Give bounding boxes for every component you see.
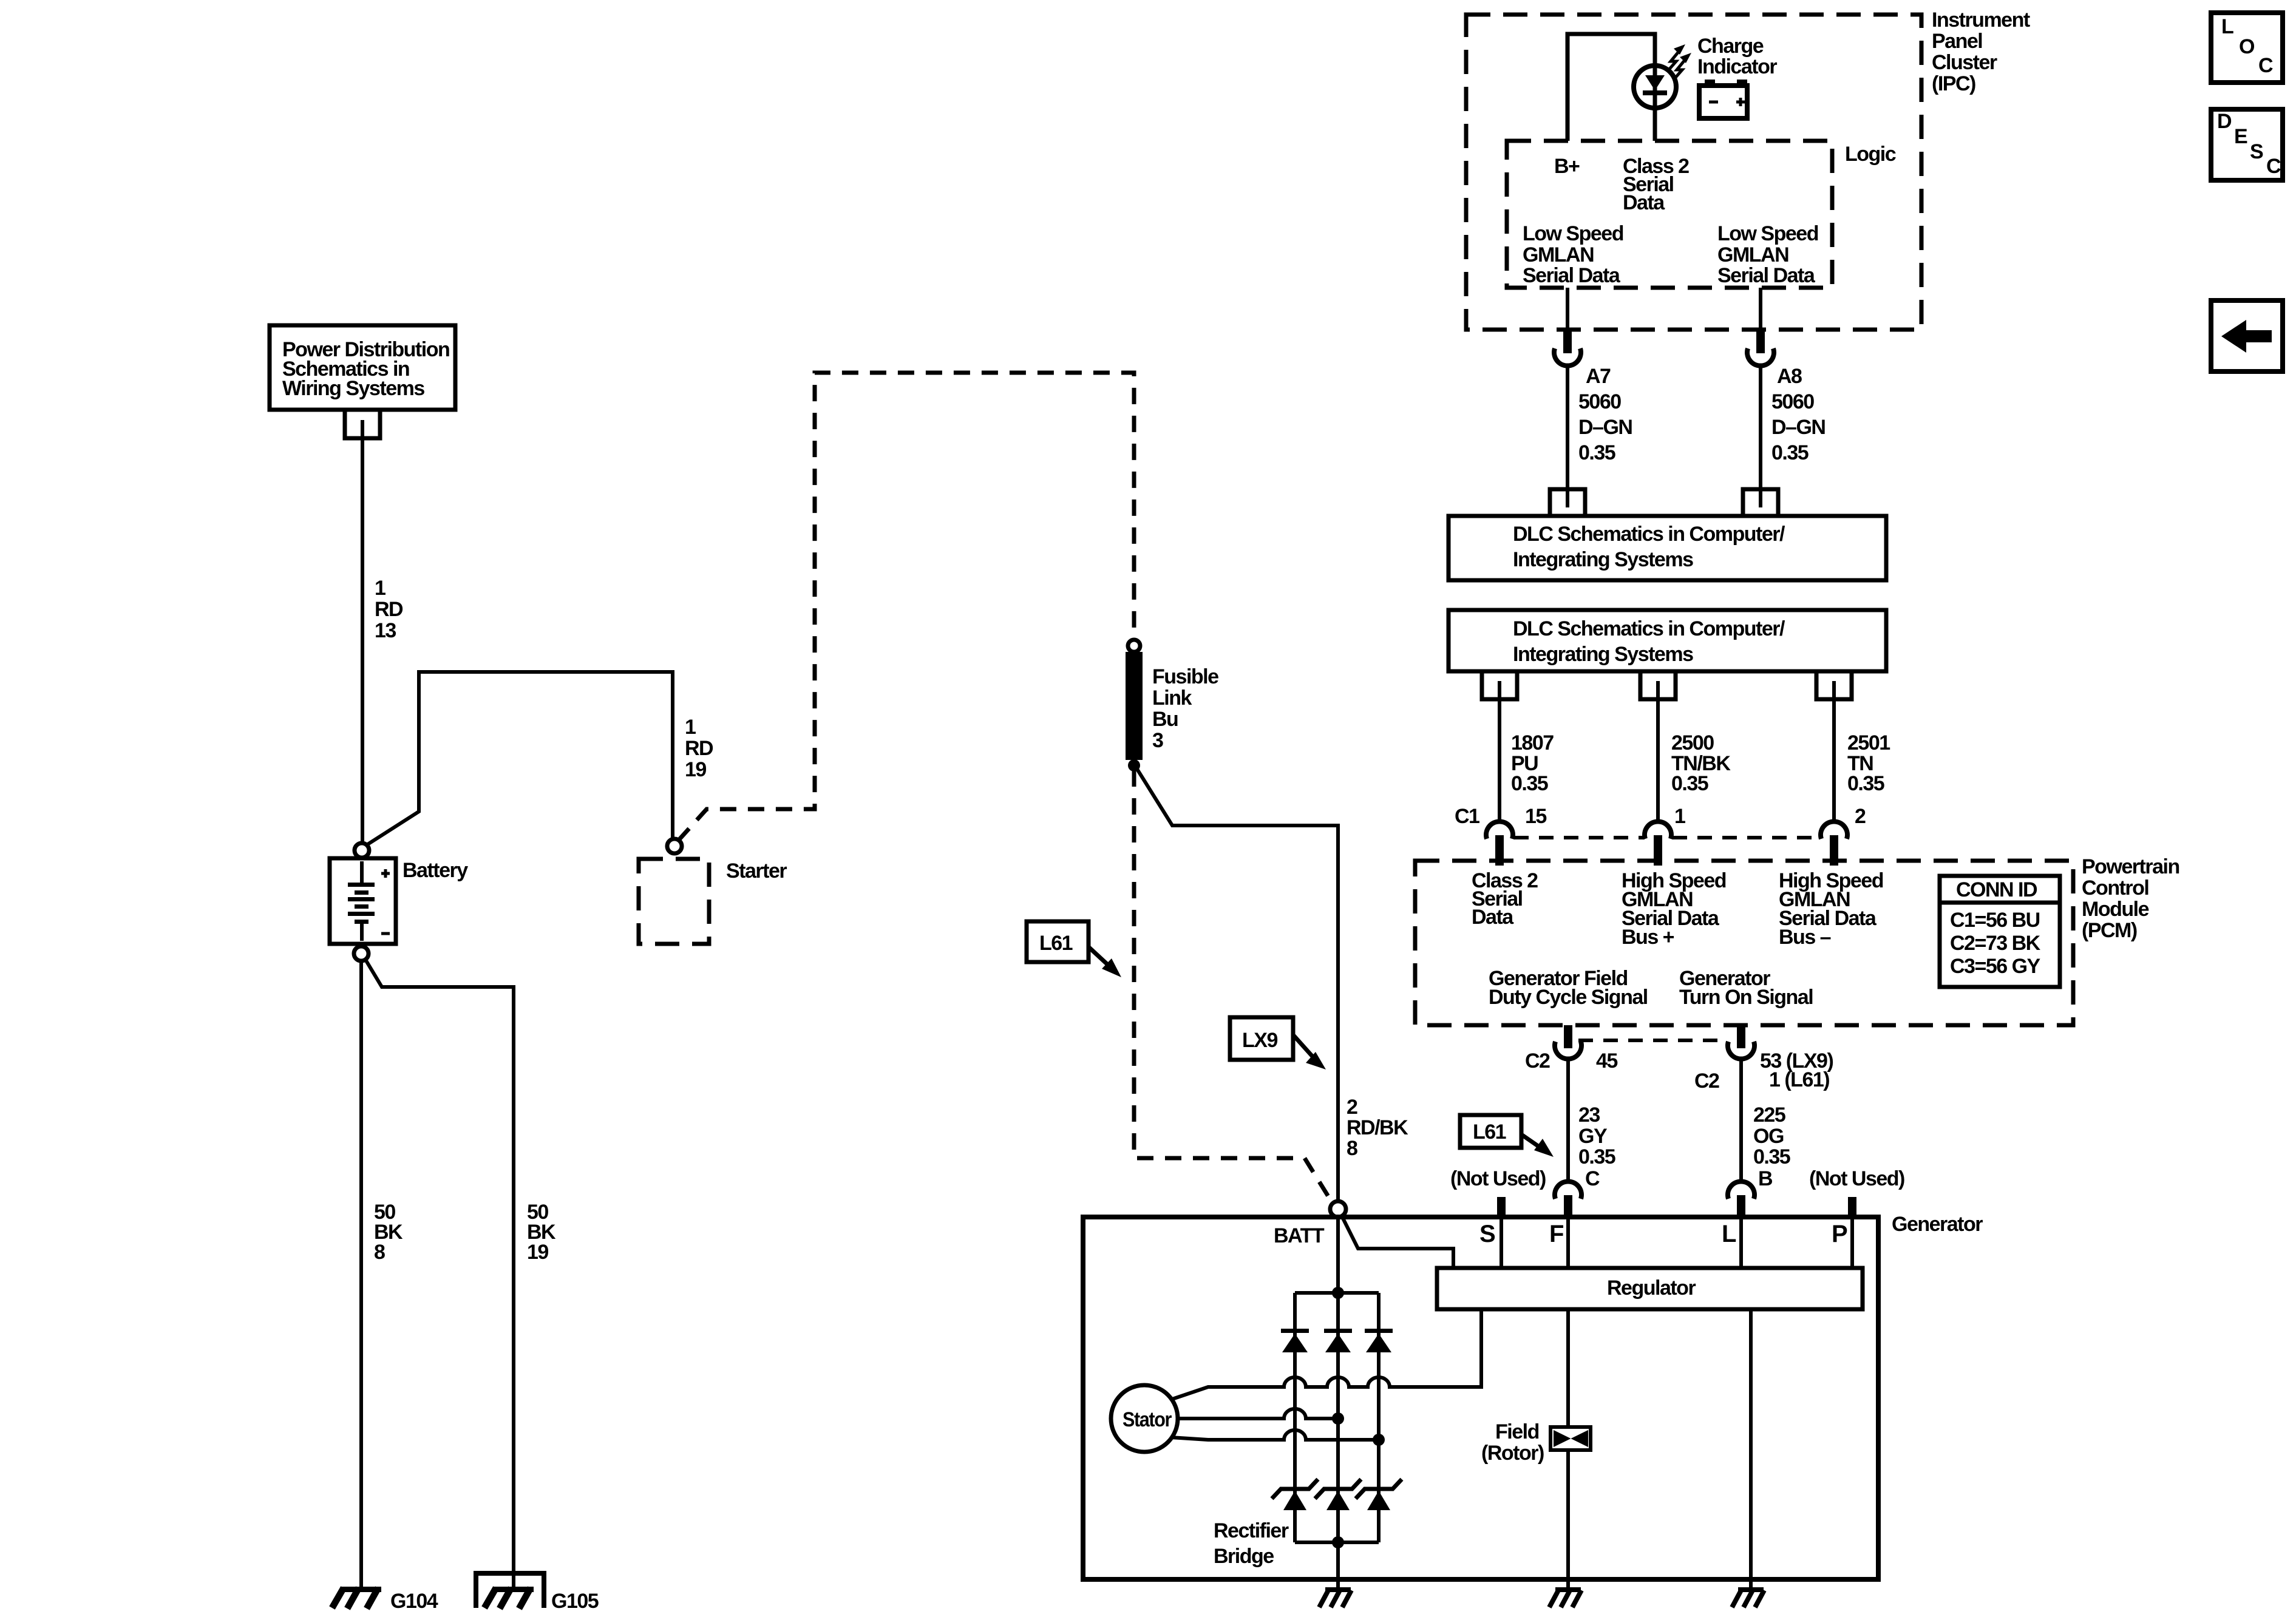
svg-text:G104: G104 [390,1590,438,1613]
bracket terminal below DLC box wire 1807 [1482,671,1517,699]
svg-text:C: C [1585,1167,1600,1190]
junction dot bottom phase [1373,1434,1385,1446]
svg-text:1: 1 [685,716,696,739]
svg-text:OG: OG [1753,1125,1784,1148]
svg-text:C: C [2266,155,2281,178]
connector cup A8 at IPC [1747,348,1774,366]
callout L61 lower [1460,1115,1554,1157]
svg-text:L: L [2221,15,2233,38]
svg-text:D–GN: D–GN [1771,416,1825,439]
label Generator Turn On Signal [1679,967,1813,1009]
svg-text:3: 3 [1152,729,1163,752]
svg-text:Bus +: Bus + [1622,926,1674,949]
svg-text:Panel: Panel [1932,30,1982,53]
svg-text:G105: G105 [551,1590,599,1613]
label High Speed GMLAN Serial Data Bus - [1779,869,1883,949]
callout L61 upper [1027,921,1121,977]
wire P terminal to regulator [1850,1217,1854,1268]
wire L terminal to regulator [1739,1217,1743,1268]
wire rectifier to ground [1336,1542,1340,1588]
svg-text:Turn On Signal: Turn On Signal [1679,986,1813,1009]
svg-text:Module: Module [2082,898,2149,921]
box DLC Schematics upper [1449,516,1886,580]
svg-text:S: S [1479,1221,1496,1247]
wire field to ground [1566,1450,1570,1588]
terminal stub P not used [1848,1197,1856,1217]
label Powertrain Control Module (PCM) [2082,855,2179,942]
ground G104 [332,1587,438,1613]
svg-text:Low Speed: Low Speed [1523,222,1623,245]
wire 1 RD 13 battery positive feed [361,420,364,842]
svg-text:Data: Data [1623,191,1665,214]
svg-text:CONN ID: CONN ID [1956,878,2037,901]
label High Speed GMLAN Serial Data Bus + [1622,869,1726,949]
field rotor symbol [1550,1427,1591,1450]
bracket terminal A7 into DLC box [1550,489,1585,516]
label wire 2 RD/BK 8 [1347,1096,1408,1160]
svg-text:1807: 1807 [1511,731,1554,754]
ground G105 with bracket [476,1573,599,1613]
svg-text:Cluster: Cluster [1932,51,1997,74]
starter dashed box [639,859,709,944]
wire 23 GY 0.35 generator field duty cycle [1566,1060,1570,1184]
svg-text:A8: A8 [1777,365,1802,388]
svg-text:E: E [2234,125,2247,148]
diode D6 bottom right avalanche [1356,1479,1402,1510]
battery icon in IPC [1699,80,1747,118]
terminal dome L into generator [1728,1181,1754,1199]
svg-text:2501: 2501 [1847,731,1890,754]
svg-text:(Not Used): (Not Used) [1809,1167,1904,1190]
svg-text:Regulator: Regulator [1607,1276,1696,1300]
svg-text:(Rotor): (Rotor) [1481,1442,1544,1465]
svg-text:D–GN: D–GN [1578,416,1632,439]
svg-text:GMLAN: GMLAN [1523,243,1594,266]
svg-text:1: 1 [1674,805,1685,828]
svg-text:225: 225 [1753,1103,1785,1127]
svg-text:Wiring Systems: Wiring Systems [282,377,424,400]
node BATT splice [1330,1201,1346,1217]
svg-text:DLC Schematics in Computer/: DLC Schematics in Computer/ [1513,523,1785,546]
svg-text:Bus –: Bus – [1779,926,1831,949]
wire 2500 TN/BK 0.35 [1656,681,1660,823]
svg-text:5060: 5060 [1578,390,1621,413]
connector dome C1 pin 15 into PCM [1486,821,1513,839]
junction dot bottom bus [1332,1536,1344,1548]
svg-text:0.35: 0.35 [1578,441,1615,464]
dashed wire L61 below fusible link to BATT node [1134,770,1333,1204]
svg-text:0.35: 0.35 [1771,441,1809,464]
diode D2 top middle [1324,1329,1352,1352]
label wire 1 RD 19 [685,716,713,781]
svg-text:Charge: Charge [1697,35,1764,58]
svg-text:1 (L61): 1 (L61) [1769,1068,1829,1091]
svg-text:Rectifier: Rectifier [1214,1519,1289,1542]
table CONN ID [1940,876,2060,987]
rectifier vertical middle [1336,1293,1340,1542]
svg-text:L61: L61 [1039,932,1073,955]
bracket terminal A8 into DLC box [1743,489,1778,516]
svg-text:A7: A7 [1586,365,1611,388]
box Power Distribution reference [270,325,455,410]
rectifier bridge bottom bus [1295,1541,1379,1544]
label Field (Rotor) [1481,1420,1544,1465]
connector dome C1 pin 2 into PCM [1821,821,1847,839]
margin icon back arrow box [2211,300,2283,371]
svg-text:C2: C2 [1525,1049,1550,1073]
svg-text:8: 8 [1347,1137,1357,1160]
svg-text:Logic: Logic [1845,143,1896,166]
wire L circuit to ground [1749,1309,1753,1588]
svg-text:C: C [2258,54,2273,77]
stator [1111,1385,1178,1452]
label Class 2 Serial Data [1623,155,1689,214]
svg-text:Powertrain: Powertrain [2082,855,2179,878]
label Charge Indicator [1697,35,1777,78]
terminal dome F into generator [1555,1181,1581,1199]
module Powertrain Control Module PCM dashed box [1415,861,2073,1025]
svg-text:C1=56 BU: C1=56 BU [1950,909,2040,932]
box DLC Schematics lower [1449,610,1886,671]
svg-text:0.35: 0.35 [1578,1145,1615,1168]
label 1807 PU 0.35 [1511,731,1554,795]
stator phase winding middle [1178,1409,1338,1419]
svg-text:B: B [1758,1167,1773,1190]
svg-text:1: 1 [375,577,385,600]
svg-text:8: 8 [374,1241,385,1264]
svg-text:S: S [2250,140,2263,163]
generator box [1083,1217,1878,1579]
svg-text:L: L [1722,1221,1736,1247]
wire 2501 TN 0.35 [1832,681,1836,823]
svg-text:2500: 2500 [1671,731,1714,754]
lightning arrows of charge indicator [1668,44,1691,80]
connector C2 dashed link line [1578,1039,1727,1042]
label A8 5060 D-GN 0.35 [1771,365,1825,464]
wire 225 OG 0.35 generator turn on signal [1739,1060,1743,1184]
label Class 2 Serial Data in PCM [1472,869,1538,929]
svg-text:Low Speed: Low Speed [1717,222,1818,245]
label A7 5060 D-GN 0.35 [1578,365,1632,464]
label Generator Field Duty Cycle Signal [1489,967,1648,1009]
svg-text:LX9: LX9 [1242,1029,1277,1052]
svg-text:Data: Data [1472,906,1514,929]
connector C1 dashed link line [1514,836,1821,839]
svg-text:Integrating Systems: Integrating Systems [1513,643,1693,666]
diode D3 top right [1365,1329,1393,1352]
svg-text:P: P [1832,1221,1848,1247]
svg-text:13: 13 [375,619,396,642]
stator phase winding top [1170,1309,1481,1400]
node battery negative terminal [354,946,369,961]
bracket below Power Distribution box [345,411,380,438]
svg-text:C2: C2 [1694,1070,1719,1093]
connector C2 pin 53 stub and cup at PCM [1737,1025,1745,1048]
bracket terminal below DLC box wire 2501 [1816,671,1852,699]
wire A8 exits IPC [1759,288,1762,331]
connector cup A7 at IPC [1554,348,1581,366]
svg-text:Stator: Stator [1123,1408,1172,1431]
svg-text:GMLAN: GMLAN [1717,243,1788,266]
module Instrument Panel Cluster IPC dashed box [1466,15,1921,330]
diode D5 bottom middle avalanche [1315,1479,1361,1510]
label Low Speed GMLAN Serial Data left [1523,222,1623,287]
junction dot middle phase [1332,1412,1344,1425]
wire A8 circuit 5060 [1759,367,1762,507]
svg-text:Generator: Generator [1892,1213,1983,1236]
svg-text:Control: Control [2082,876,2148,900]
svg-text:Instrument: Instrument [1932,8,2030,32]
label Instrument Panel Cluster (IPC) [1932,8,2030,95]
svg-text:Duty Cycle Signal: Duty Cycle Signal [1489,986,1648,1009]
label wire 1 RD 13 [375,577,403,642]
svg-text:23: 23 [1578,1103,1600,1127]
battery B1 [330,858,396,944]
svg-text:0.35: 0.35 [1511,772,1548,795]
svg-text:(PCM): (PCM) [2082,919,2137,942]
wire BATT vertical into rectifier bridge [1336,1216,1340,1293]
svg-text:0.35: 0.35 [1671,772,1708,795]
ground below field [1549,1587,1581,1607]
svg-text:L61: L61 [1473,1120,1506,1144]
svg-text:19: 19 [685,758,706,781]
wire A7 exits IPC [1566,288,1569,331]
label 2501 TN 0.35 [1847,731,1890,795]
svg-text:(IPC): (IPC) [1932,72,1975,95]
rectifier vertical right [1377,1293,1381,1542]
bracket terminal below DLC box wire 2500 [1640,671,1676,699]
margin icon LOC box [2211,13,2283,83]
svg-text:5060: 5060 [1771,390,1814,413]
svg-text:2: 2 [1347,1096,1357,1119]
label wire 50 BK 19 [527,1201,556,1264]
svg-text:Bridge: Bridge [1214,1545,1274,1568]
wire field F from regulator [1566,1309,1570,1427]
node battery positive terminal [355,843,369,858]
svg-text:O: O [2239,35,2255,58]
svg-text:19: 19 [527,1241,548,1264]
svg-text:Indicator: Indicator [1697,55,1777,78]
diode D1 top left [1281,1329,1309,1352]
svg-text:RD/BK: RD/BK [1347,1116,1408,1139]
stator phase winding bottom [1170,1430,1379,1440]
node starter terminal [667,839,682,853]
svg-text:0.35: 0.35 [1847,772,1884,795]
svg-text:Bu: Bu [1152,708,1178,731]
wire B+ branch inside IPC [1567,34,1655,141]
svg-text:45: 45 [1596,1049,1617,1073]
svg-text:C2=73 BK: C2=73 BK [1950,932,2041,955]
svg-text:B+: B+ [1554,155,1580,178]
connector dome C1 pin 1 into PCM [1645,821,1671,839]
label 2500 TN/BK 0.35 [1671,731,1731,795]
svg-text:GY: GY [1578,1125,1608,1148]
rectifier bridge top bus [1295,1291,1379,1295]
label Low Speed GMLAN Serial Data right [1717,222,1818,287]
wire F terminal to regulator [1566,1217,1570,1268]
wire 1807 PU 0.35 [1498,681,1501,823]
svg-text:Integrating Systems: Integrating Systems [1513,548,1693,571]
svg-text:RD: RD [375,598,403,621]
svg-text:D: D [2217,110,2232,133]
svg-text:Field: Field [1495,1420,1539,1443]
svg-text:0.35: 0.35 [1753,1145,1790,1168]
svg-text:(Not Used): (Not Used) [1450,1167,1546,1190]
ground below L circuit [1732,1587,1764,1607]
wire 50 BK 19 battery negative to G105 [365,960,514,1588]
rectifier vertical left [1293,1293,1297,1542]
connector C2 pin 45 stub and cup at PCM [1564,1025,1572,1048]
svg-text:RD: RD [685,737,713,760]
fusible link Bu 3 [1126,640,1218,771]
label 23 GY 0.35 [1578,1103,1615,1168]
svg-text:C1: C1 [1455,805,1479,828]
ground below rectifier [1319,1587,1351,1607]
svg-text:DLC Schematics in Computer/: DLC Schematics in Computer/ [1513,617,1785,640]
svg-text:C3=56 GY: C3=56 GY [1950,955,2041,978]
wire S terminal to regulator [1500,1217,1503,1268]
wire A7 circuit 5060 [1566,367,1569,507]
svg-text:2: 2 [1855,805,1866,828]
charge indicator lamp LED [1634,66,1676,108]
diode D4 bottom left avalanche [1272,1479,1318,1510]
svg-text:15: 15 [1525,805,1546,828]
svg-text:Starter: Starter [726,859,787,883]
margin icon DESC box [2211,109,2283,180]
callout LX9 [1230,1017,1326,1070]
svg-text:BATT: BATT [1274,1224,1325,1247]
terminal stub S not used [1497,1197,1506,1217]
label 225 OG 0.35 [1753,1103,1790,1168]
svg-text:Serial Data: Serial Data [1717,264,1816,287]
svg-text:Fusible: Fusible [1152,665,1218,688]
junction dot BATT bus [1332,1287,1344,1299]
wire 50 BK 8 battery negative to G104 [359,961,363,1588]
svg-text:Battery: Battery [402,859,468,882]
wire BATT node to regulator S input [1342,1216,1453,1268]
dashed wire L61 from starter to fusible link [678,373,1134,841]
svg-text:Serial Data: Serial Data [1523,264,1621,287]
wire from battery positive up to 1 RD 19 run [367,672,673,845]
label wire 50 BK 8 [374,1201,403,1264]
wire 2 RD/BK 8 from fusible link to generator BATT [1134,764,1338,1202]
box Regulator [1437,1268,1863,1309]
label Rectifier Bridge [1214,1519,1289,1568]
module Logic dashed box inside IPC [1507,141,1832,288]
svg-text:Link: Link [1152,686,1192,710]
svg-text:F: F [1549,1221,1564,1247]
